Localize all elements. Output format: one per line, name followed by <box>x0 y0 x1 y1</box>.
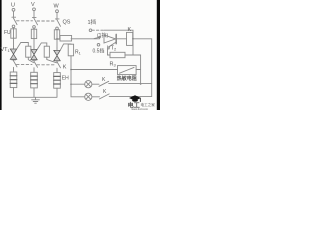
svg-text:EH: EH <box>62 76 69 82</box>
switch lower terminal V <box>33 26 36 29</box>
right rail <box>151 39 153 97</box>
wire resistor to selector pole <box>71 38 100 40</box>
resistor R3 <box>108 54 111 56</box>
node feed-lamp1 <box>70 83 72 85</box>
switch QS link dashes <box>17 20 55 22</box>
series resistor (horizontal) <box>60 36 72 42</box>
fuse FU phase V <box>33 28 35 47</box>
node thermistor-lamprow1 <box>140 83 142 85</box>
contact link dashes <box>17 63 55 65</box>
fuse FU phase W <box>56 30 58 48</box>
switch QS blade U <box>12 17 17 24</box>
gate triac V <box>37 43 47 49</box>
contact K phase V <box>32 60 37 70</box>
wire W drop <box>56 13 58 19</box>
terminal U <box>12 8 15 11</box>
svg-text:K: K <box>63 65 67 71</box>
svg-text:0.5挡: 0.5挡 <box>93 48 105 55</box>
svg-text:U: U <box>11 3 15 9</box>
left page border <box>0 0 2 110</box>
contact K lamp1 <box>99 81 109 86</box>
contact K phase U <box>12 60 17 69</box>
lamp feed rail <box>71 70 85 97</box>
wire U drop <box>13 11 15 17</box>
thermistor box <box>118 66 137 75</box>
svg-text:www.dgzj.com: www.dgzj.com <box>132 107 149 110</box>
wire cathode to K coil <box>116 38 126 40</box>
node gate-network branch <box>132 38 134 40</box>
wire contact1 to cathode node <box>92 29 104 31</box>
resistor R1 <box>70 56 72 70</box>
svg-text:QS: QS <box>63 20 71 26</box>
triac phase W <box>56 48 58 62</box>
thyristor VT2 <box>104 35 116 43</box>
wire thermistor right to branch <box>136 69 141 71</box>
switch lower terminal U <box>12 25 15 28</box>
node feed-thermistor <box>70 69 72 71</box>
wire feed to lamp1 <box>71 83 85 85</box>
wire W tap to series resistor <box>57 38 60 40</box>
watermark cap icon <box>129 95 141 101</box>
terminal V <box>33 8 36 11</box>
relay coil K <box>127 32 133 45</box>
switch QS blade W <box>55 19 60 26</box>
gate VT1 <box>17 43 29 49</box>
heater EH phase V <box>33 70 35 73</box>
contact K lamp2 <box>100 94 110 99</box>
node W tap <box>56 38 58 40</box>
wire K coil to right rail <box>133 38 152 40</box>
svg-text:W: W <box>54 4 60 10</box>
contact K phase W <box>55 61 60 71</box>
VT2 gate lead <box>108 42 117 55</box>
ground <box>32 97 40 103</box>
heater EH phase U <box>13 69 15 72</box>
heater EH phase W <box>56 70 58 72</box>
svg-text:(1挡): (1挡) <box>97 32 108 39</box>
svg-text:电工之家: 电工之家 <box>141 102 156 107</box>
fuse FU phase U <box>13 28 15 47</box>
gate resistor box 2 <box>44 46 49 57</box>
gate triac W <box>60 44 71 50</box>
terminal W <box>56 10 59 13</box>
svg-text:K: K <box>128 27 132 33</box>
wire V drop <box>33 11 35 17</box>
wire thermistor left to lamp rail <box>71 69 118 71</box>
wire lamp1 to contact <box>92 83 99 85</box>
svg-text:热敏电阻: 热敏电阻 <box>117 75 137 82</box>
svg-text:FU: FU <box>4 30 11 36</box>
wire branch down to lamp row1 <box>140 70 142 85</box>
svg-text:VT1: VT1 <box>1 47 11 53</box>
svg-text:VT2: VT2 <box>107 46 117 52</box>
svg-text:1挡: 1挡 <box>88 18 97 26</box>
switch lower terminal W <box>56 27 59 30</box>
lamp HL2 <box>85 93 92 100</box>
triac phase V <box>33 47 35 61</box>
triac VT1 phase U <box>13 47 15 61</box>
selector pole tip <box>94 37 101 39</box>
svg-text:V: V <box>31 2 35 8</box>
wire lamp2 to contact <box>92 96 100 98</box>
svg-text:R3: R3 <box>110 62 117 68</box>
star bus <box>14 88 58 98</box>
gate resistor box 1 <box>26 46 31 57</box>
switch QS blade V <box>32 17 37 24</box>
selector contact 2 (0.5挡) <box>97 44 100 47</box>
right page border <box>157 0 160 110</box>
lamp HL1 <box>85 81 92 88</box>
selector contact 1 (1挡) <box>89 29 92 32</box>
wire branch down to R3 level <box>133 39 141 70</box>
